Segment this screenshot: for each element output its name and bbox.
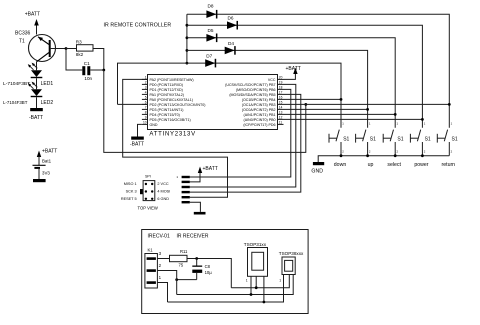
svg-text:10n: 10n [84, 76, 92, 81]
capacitor C8 10u electrolytic [192, 259, 212, 280]
wire PB6 MISO to ISP bar1 [190, 89, 291, 177]
svg-text:6 GND: 6 GND [157, 197, 169, 201]
pin 12 PB0 [244, 116, 283, 122]
pin 4 PA1 [142, 91, 184, 97]
svg-text:1: 1 [246, 279, 248, 283]
pin 1 PA2 [142, 76, 194, 82]
svg-text:down: down [334, 162, 347, 168]
wire D7 row (to PD2 loop left, to switch1 right) [118, 63, 342, 128]
power -BATT (under LEDs) [29, 108, 43, 121]
LED LED2 L-7104F3BT [3, 82, 53, 106]
wire transistor base to node [51, 48, 66, 50]
pin 2 PD0 [142, 81, 183, 87]
svg-text:PD0 (PCINT11/RXD): PD0 (PCINT11/RXD) [150, 83, 183, 87]
wire D6 row [187, 25, 423, 128]
wire K1 pin2 down to W2 gnd rail [157, 271, 176, 295]
wire LED2 to -BATT [36, 97, 38, 108]
svg-text:11: 11 [279, 121, 283, 125]
svg-text:+BATT: +BATT [286, 66, 301, 72]
svg-text:PD1 (PCINT12/TXD): PD1 (PCINT12/TXD) [150, 88, 183, 92]
node bus-D6 [186, 24, 189, 27]
resistor R3 [76, 40, 93, 58]
svg-text:(AIN1/PCINT1) PB1: (AIN1/PCINT1) PB1 [244, 113, 276, 117]
wire node down to C1 [66, 49, 82, 71]
wire ISP pad 6 to ground [190, 202, 201, 212]
svg-text:TOP VIEW: TOP VIEW [138, 205, 158, 210]
svg-text:Bat1: Bat1 [42, 159, 52, 164]
wire node to R3 [66, 48, 77, 50]
svg-text:GND: GND [150, 123, 158, 127]
node bus-D5 [186, 36, 189, 39]
pin 18 PB6 [236, 86, 283, 92]
svg-text:S1: S1 [370, 137, 376, 143]
svg-text:4: 4 [145, 91, 147, 95]
ground (ISP pad 6) [194, 212, 206, 215]
svg-text:2 VCC: 2 VCC [157, 182, 168, 186]
node PB3/switch5/D8 [448, 103, 451, 106]
diode D8 [206, 4, 217, 19]
svg-text:VCC: VCC [268, 78, 276, 82]
svg-text:S1: S1 [343, 137, 349, 143]
pin 13 PB1 [244, 111, 283, 117]
svg-text:PD4 (PCINT15/T0): PD4 (PCINT15/T0) [150, 113, 180, 117]
svg-text:SPI: SPI [145, 174, 151, 178]
node K1 pin2 / C8 / GND net [175, 278, 178, 281]
switch S1 (down) [329, 122, 350, 169]
pin 16 PB4 [242, 96, 283, 102]
svg-text:5: 5 [145, 96, 147, 100]
node rail switch4 [421, 154, 424, 157]
svg-text:7: 7 [145, 106, 147, 110]
svg-text:PA1 (PCINT9/XTAL2): PA1 (PCINT9/XTAL2) [150, 93, 184, 97]
wire D8 row [187, 14, 449, 128]
svg-text:+BATT: +BATT [203, 166, 218, 172]
node base junction [65, 47, 68, 50]
svg-text:10µ: 10µ [205, 270, 213, 275]
battery Bat1 3V3 [33, 149, 58, 183]
node PB2/switch2/D4 [366, 108, 369, 111]
svg-text:(OC1B/PCINT4) PB4: (OC1B/PCINT4) PB4 [242, 98, 276, 102]
node bus-D7 [186, 62, 189, 65]
switch S1 (select) [383, 122, 404, 169]
connector ISP pads [176, 175, 189, 203]
wire PB5 MOSI to ISP bar4 [190, 94, 301, 192]
svg-text:IR RECEIVER: IR RECEIVER [177, 234, 209, 240]
svg-text:(MISO/DO/PCINT6) PB6: (MISO/DO/PCINT6) PB6 [236, 88, 276, 92]
svg-text:D6: D6 [228, 16, 234, 21]
wire C1 right to junction [90, 69, 104, 71]
svg-text:PD5 (PCINT16/OC0B/T1): PD5 (PCINT16/OC0B/T1) [150, 118, 191, 122]
connector K1 [145, 248, 162, 289]
svg-text:PD3 (PCINT14/INT1): PD3 (PCINT14/INT1) [150, 108, 184, 112]
svg-text:MISO 1: MISO 1 [124, 182, 137, 186]
svg-text:R11: R11 [180, 249, 188, 254]
wire switch ground rail [318, 156, 449, 162]
node W3 TSOP31 pin3 [263, 301, 266, 304]
connector SPI header top view [121, 174, 170, 210]
svg-text:L-7104F3BT: L-7104F3BT [3, 100, 28, 105]
diode D4 [225, 41, 236, 55]
svg-text:8: 8 [145, 111, 147, 115]
node W1 TSOP31 pin2 [255, 286, 258, 289]
wire K1 pin3 to R11 [157, 258, 169, 260]
svg-text:LED1: LED1 [41, 81, 54, 87]
svg-text:TSOP38xxx: TSOP38xxx [279, 251, 304, 256]
svg-text:8k2: 8k2 [76, 52, 84, 57]
svg-text:(ICP/PCINT17) PD6: (ICP/PCINT17) PD6 [243, 123, 275, 127]
diode D7 [205, 54, 216, 68]
switch S1 (up) [356, 122, 377, 169]
svg-text:-BATT: -BATT [29, 115, 43, 121]
svg-text:(OC0A/PCINT2) PB2: (OC0A/PCINT2) PB2 [242, 108, 276, 112]
svg-text:75: 75 [179, 262, 184, 267]
node rail switch1 [340, 154, 343, 157]
wire D4 row [187, 50, 368, 127]
wire PA2 RESET loop [123, 79, 228, 197]
LED LED1 L-7104F3BT [3, 63, 53, 87]
svg-text:C1: C1 [84, 61, 90, 66]
ground GND (switches) [311, 162, 324, 175]
pin 6 PD2 [142, 101, 206, 107]
wire LED1 to LED2 [36, 78, 38, 89]
wire PB2 row to switch S1 up [278, 108, 368, 110]
wire D5 row [187, 38, 395, 128]
IC TSOP38xxx [279, 251, 304, 283]
wire PD2 to D7 loop (left vertical drawn with D7 row) [118, 103, 148, 105]
op-amp U1 ATTINY2313V (MCU box) [148, 75, 278, 130]
pin 3 PD1 [142, 86, 183, 92]
node bus-D4 [186, 49, 189, 52]
svg-text:(MOSI/DI/SDA/PCINT5) PB5: (MOSI/DI/SDA/PCINT5) PB5 [229, 93, 275, 97]
power +BATT (ISP pad 2) [190, 166, 218, 182]
pin 11 PD6 [243, 121, 283, 127]
node rail switch2 [366, 154, 369, 157]
node PB0/switch4/D6 [421, 118, 424, 121]
capacitor C1 10n [82, 61, 92, 81]
node base drive to PB3 row [304, 103, 307, 106]
transistor T1 BC336 [15, 31, 56, 62]
pin 5 PA0 [142, 96, 193, 102]
svg-text:3: 3 [145, 86, 147, 90]
wire PB7 SCK to ISP bar3 [190, 84, 296, 187]
svg-text:up: up [368, 162, 374, 168]
node R11/C8 [195, 257, 198, 260]
wire PB1 row to switch S1 select [278, 113, 396, 115]
svg-text:D4: D4 [228, 41, 234, 46]
pin 10 GND [142, 121, 158, 127]
node PB4/switch1/D7 [340, 98, 343, 101]
svg-text:BC336: BC336 [15, 31, 31, 37]
svg-text:R3: R3 [76, 40, 82, 45]
switch S1 (power) [410, 122, 431, 169]
svg-text:(AIN0/PCINT0) PB0: (AIN0/PCINT0) PB0 [244, 118, 276, 122]
svg-text:K1: K1 [148, 248, 154, 253]
node W2 TSOP31 pin1 [250, 293, 253, 296]
wire R11 to Vs riser [187, 259, 231, 288]
svg-text:S1: S1 [397, 137, 403, 143]
pin 14 PB2 [242, 106, 283, 112]
svg-text:D7: D7 [206, 54, 212, 59]
pin 20 VCC [268, 76, 284, 82]
svg-text:10: 10 [143, 121, 147, 125]
wire diode anode bus [186, 14, 188, 63]
wire TSOP31 pin3 [263, 276, 265, 302]
wire TSOP31 pin1 [250, 276, 252, 294]
svg-text:+BATT: +BATT [42, 149, 57, 155]
wire PB3 row to switch S1 return [278, 103, 450, 105]
svg-text:2: 2 [145, 81, 147, 85]
wire PB0 row to switch S1 power [278, 118, 423, 120]
wire transistor collector to LED1 [36, 62, 38, 70]
svg-text:S1: S1 [425, 137, 431, 143]
svg-text:-BATT: -BATT [130, 142, 144, 148]
svg-text:ATTINY2313V: ATTINY2313V [149, 132, 196, 138]
svg-text:PA2 (PCINT10/RESET/dW): PA2 (PCINT10/RESET/dW) [150, 78, 194, 82]
svg-text:20: 20 [279, 76, 283, 80]
svg-text:IR REMOTE CONTROLLER: IR REMOTE CONTROLLER [104, 23, 172, 29]
node PB1/switch3/D5 [394, 113, 397, 116]
IR receiver module box IRECV-01 [142, 230, 308, 314]
node C1/R3 right junction [102, 69, 105, 72]
wire TSOP31 pin2 [255, 276, 257, 287]
svg-text:+BATT: +BATT [25, 12, 40, 18]
svg-text:S1: S1 [452, 137, 458, 143]
svg-text:(UCSK/SCL/SCK/PCINT7) PB7: (UCSK/SCL/SCK/PCINT7) PB7 [225, 83, 275, 87]
wire K1 pin1 to W3 out rail [157, 283, 167, 303]
pin 19 PB7 [225, 81, 282, 87]
svg-text:C8: C8 [205, 264, 211, 269]
wire W1 Vs rail to TSOP38 pin2 [231, 275, 289, 288]
wire IC GND to -BATT [138, 124, 142, 136]
svg-text:1: 1 [279, 279, 281, 283]
svg-text:GND: GND [311, 169, 323, 175]
svg-text:3V3: 3V3 [42, 171, 50, 176]
wire W2 gnd rail to TSOP38 pin3 [177, 275, 294, 295]
diode D6 [227, 16, 238, 30]
wire C8 bottom to K1 pin2 net [177, 279, 197, 281]
svg-text:PD2 (PCINT13/CKOUT/XCK/INT0): PD2 (PCINT13/CKOUT/XCK/INT0) [150, 103, 206, 107]
power +BATT (top left) [25, 12, 40, 35]
svg-text:(OC1A/PCINT3) PB3: (OC1A/PCINT3) PB3 [242, 103, 276, 107]
svg-text:PA0 (PCINT8/CLKI/XTAL1): PA0 (PCINT8/CLKI/XTAL1) [150, 98, 193, 102]
svg-text:9: 9 [145, 116, 147, 120]
power +BATT (IC VCC) [284, 66, 301, 79]
pin 8 PD4 [142, 111, 180, 117]
svg-text:TSOP31xx: TSOP31xx [244, 242, 267, 247]
resistor R11 75 [170, 249, 189, 267]
svg-text:LED2: LED2 [41, 100, 54, 106]
pin 9 PD5 [142, 116, 191, 122]
wire TSOP38 pin1 to W3 [168, 275, 284, 303]
pin 17 PB5 [229, 91, 282, 97]
svg-text:L-7104F3BT: L-7104F3BT [3, 81, 30, 87]
switch S1 (return) [437, 122, 458, 169]
svg-text:RESET 5: RESET 5 [121, 197, 137, 201]
wire R3 right to corner [93, 49, 104, 71]
pin 15 PB3 [242, 101, 283, 107]
svg-text:D8: D8 [208, 4, 214, 9]
IC TSOP31xx [244, 242, 268, 283]
svg-text:4 MOSI: 4 MOSI [157, 189, 170, 193]
diode D5 [206, 28, 217, 42]
node rail switch3 [394, 154, 397, 157]
svg-text:power: power [414, 162, 428, 168]
wire base drive line (down, right to PB3 riser) [104, 70, 306, 152]
svg-text:return: return [442, 162, 456, 168]
svg-text:select: select [387, 162, 401, 168]
svg-text:IRECV-01: IRECV-01 [148, 234, 170, 240]
wire PB4 row to switch S1 down [278, 98, 342, 100]
svg-text:SCK 3: SCK 3 [126, 189, 137, 193]
svg-text:T1: T1 [19, 39, 25, 45]
pin 7 PD3 [142, 106, 184, 112]
power -BATT (IC GND) [130, 137, 144, 148]
svg-text:D5: D5 [208, 28, 214, 33]
